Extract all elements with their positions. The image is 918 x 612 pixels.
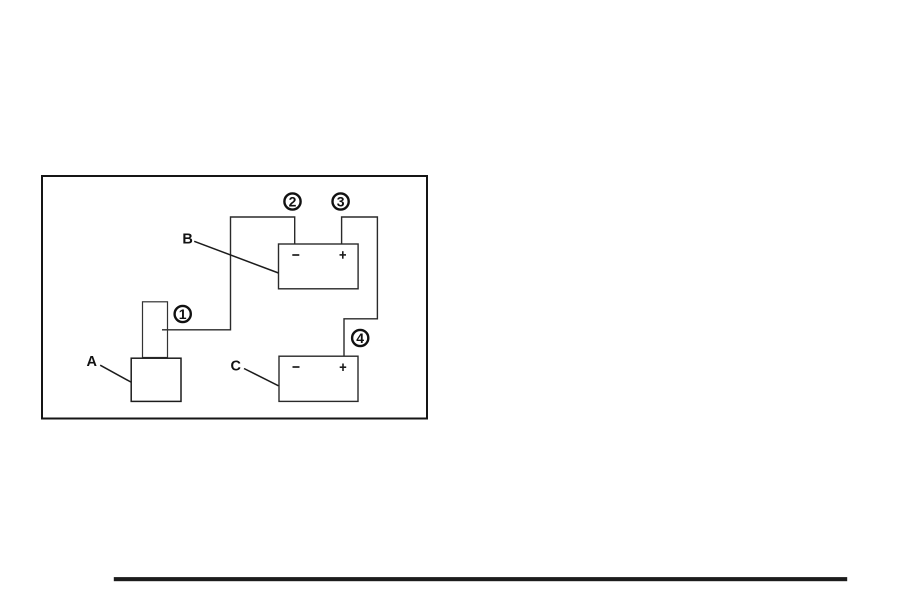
component A terminal post (143, 302, 168, 358)
callout circle 3 (333, 193, 349, 209)
diagram frame (42, 176, 427, 419)
svg-text:4: 4 (356, 330, 364, 346)
battery B minus terminal (292, 254, 299, 256)
svg-text:2: 2 (289, 194, 297, 210)
battery C box (279, 356, 358, 401)
leader line C (244, 369, 279, 386)
component A box (131, 358, 181, 401)
svg-text:3: 3 (337, 194, 345, 210)
leader line A (100, 365, 131, 382)
wire 1: from component A terminal to battery B negative (162, 217, 295, 330)
callout circle 2 (284, 193, 300, 209)
battery B box (279, 244, 359, 289)
wire 2: from battery B positive to battery C positive (342, 217, 378, 356)
bottom rule (114, 577, 847, 581)
battery C plus terminal (340, 364, 347, 372)
svg-text:1: 1 (179, 306, 187, 322)
svg-text:A: A (87, 354, 98, 370)
callout circle 1 (175, 306, 191, 322)
svg-text:B: B (182, 232, 192, 248)
leader line B (194, 241, 278, 273)
callout circle 4 (352, 330, 368, 346)
svg-text:C: C (230, 359, 241, 375)
battery C minus terminal (293, 366, 300, 368)
battery B plus terminal (340, 251, 347, 259)
